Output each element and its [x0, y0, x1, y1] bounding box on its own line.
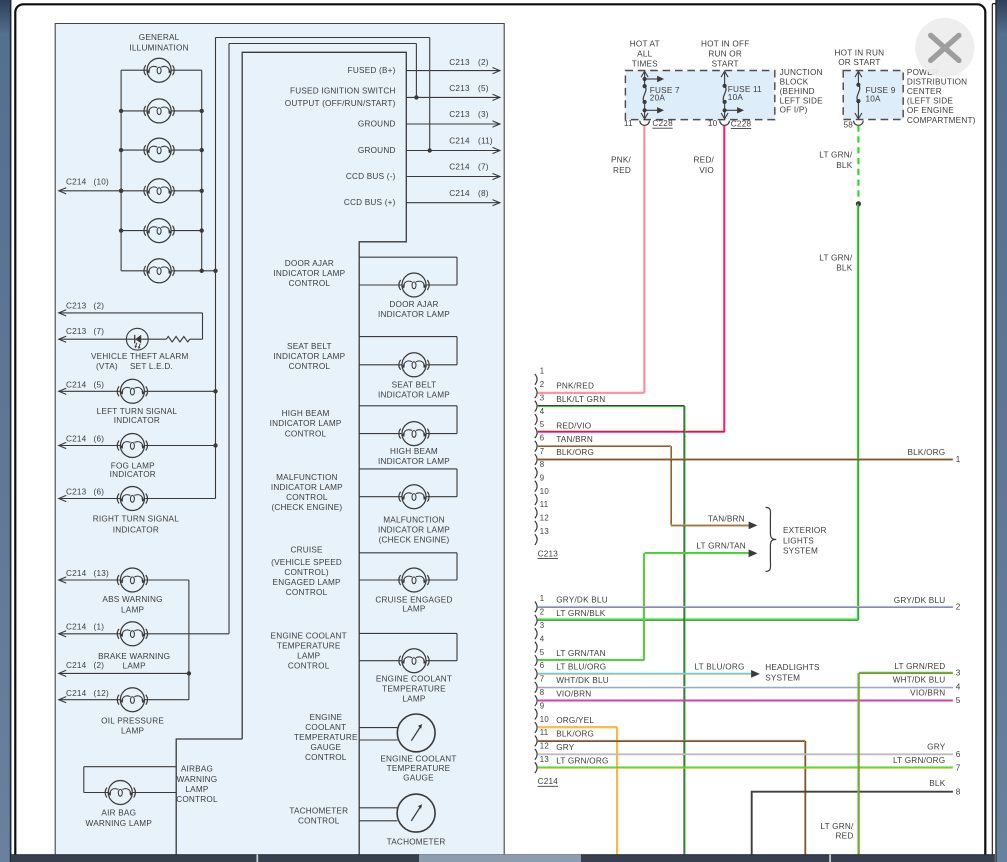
svg-text:CONTROL: CONTROL — [298, 817, 340, 826]
svg-text:MALFUNCTION: MALFUNCTION — [383, 515, 445, 524]
lamp HIGH BEAM — [399, 422, 429, 446]
general illumination left bus — [120, 70, 122, 271]
svg-text:LAMP: LAMP — [402, 694, 425, 703]
C214 pin 6 — [535, 669, 537, 680]
illumination lamp 6 row wire — [121, 270, 147, 272]
svg-text:2: 2 — [956, 603, 961, 612]
svg-text:HOT AT: HOT AT — [630, 40, 660, 49]
svg-text:HOT IN OFF: HOT IN OFF — [701, 40, 749, 49]
svg-text:EXTERIOR: EXTERIOR — [783, 526, 827, 535]
svg-text:TACHOMETER: TACHOMETER — [387, 837, 446, 846]
svg-text:4: 4 — [540, 634, 545, 643]
FOG LAMP wire C214(6) — [59, 445, 121, 447]
svg-text:DOOR AJAR: DOOR AJAR — [389, 300, 438, 309]
svg-text:(VEHICLE SPEED: (VEHICLE SPEED — [271, 558, 342, 567]
right scrollbar sliver — [992, 4, 996, 862]
svg-text:WARNING LAMP: WARNING LAMP — [86, 819, 153, 828]
air bag warning lamp — [105, 781, 135, 805]
output wire C213 (2) — [406, 70, 500, 72]
output wire C214 (7) — [406, 176, 500, 178]
svg-text:BLK/ORG: BLK/ORG — [556, 730, 594, 739]
svg-text:GENERAL: GENERAL — [139, 33, 180, 42]
svg-text:GRY: GRY — [927, 742, 946, 751]
lamp SEAT BELT — [399, 353, 429, 377]
svg-text:SYSTEM: SYSTEM — [783, 546, 818, 555]
svg-text:INDICATOR LAMP: INDICATOR LAMP — [273, 352, 345, 361]
lamp box HIGH BEAM — [359, 405, 457, 407]
svg-text:GROUND: GROUND — [358, 120, 396, 129]
svg-text:C214: C214 — [66, 623, 87, 632]
ABS WARNING wire C214(13) — [59, 579, 121, 581]
C214 pin 1 — [535, 602, 537, 613]
svg-text:(2): (2) — [478, 58, 489, 67]
svg-text:1: 1 — [956, 455, 961, 464]
power distribution center dashed box — [843, 71, 903, 120]
svg-text:TACHOMETER: TACHOMETER — [289, 806, 348, 815]
bottom scrollbar track — [11, 855, 995, 862]
lamp RIGHT TURN SIGNAL — [117, 487, 147, 511]
svg-text:LEFT TURN SIGNAL: LEFT TURN SIGNAL — [97, 407, 178, 416]
svg-text:CONTROL: CONTROL — [289, 279, 331, 288]
svg-text:INDICATOR: INDICATOR — [113, 525, 159, 534]
airbag warning lamp loop — [84, 766, 176, 768]
svg-text:7: 7 — [540, 447, 545, 456]
wire GRY/DK BLU — [538, 605, 953, 607]
lamp ABS WARNING — [117, 568, 147, 592]
svg-text:SEAT BELT: SEAT BELT — [287, 342, 332, 351]
C213 pin 7 — [535, 454, 537, 465]
svg-text:SEAT BELT: SEAT BELT — [392, 380, 437, 389]
svg-text:10A: 10A — [866, 95, 882, 104]
svg-text:(1): (1) — [94, 623, 105, 632]
svg-text:(11): (11) — [478, 136, 493, 145]
svg-text:12: 12 — [540, 514, 549, 523]
junction dot left bus — [119, 228, 123, 232]
svg-text:ENGINE COOLANT: ENGINE COOLANT — [271, 632, 347, 641]
svg-text:LAMP: LAMP — [123, 662, 146, 671]
fuse 9 — [857, 71, 859, 85]
output wire C213 (3) — [406, 123, 500, 125]
tachometer — [359, 807, 397, 809]
svg-text:CONTROL: CONTROL — [286, 588, 328, 597]
svg-text:FUSE 9: FUSE 9 — [866, 86, 896, 95]
svg-text:(5): (5) — [478, 84, 489, 93]
svg-text:LT GRN/TAN: LT GRN/TAN — [556, 649, 606, 658]
illumination lamp 4 — [144, 179, 174, 203]
svg-text:CONTROL: CONTROL — [305, 753, 347, 762]
svg-text:8: 8 — [956, 787, 961, 796]
illumination lamp 5 — [144, 219, 174, 243]
svg-text:C214: C214 — [449, 189, 470, 198]
C213 pin 8 — [535, 467, 537, 478]
svg-text:4: 4 — [956, 683, 961, 692]
svg-text:(8): (8) — [478, 189, 489, 198]
svg-text:(7): (7) — [478, 163, 489, 172]
output wire C214 (8) — [406, 202, 500, 204]
lamp FOG LAMP — [117, 434, 147, 458]
svg-text:DOOR AJAR: DOOR AJAR — [285, 259, 334, 268]
svg-text:C214: C214 — [449, 136, 470, 145]
svg-text:(2): (2) — [94, 661, 105, 670]
svg-text:JUNCTION: JUNCTION — [780, 68, 823, 77]
illumination lamp 6 — [144, 259, 174, 283]
svg-text:INDICATOR LAMP: INDICATOR LAMP — [378, 525, 450, 534]
C214 pin 7 — [535, 682, 537, 693]
svg-text:C213: C213 — [66, 301, 87, 310]
svg-text:OF I/P): OF I/P) — [780, 106, 808, 115]
C214 pin 3 — [535, 628, 537, 639]
svg-text:20A: 20A — [650, 94, 666, 103]
illumination lamp 2 row wire — [121, 110, 147, 112]
svg-text:3: 3 — [540, 621, 545, 630]
lamp CRUISE ENGAGED — [399, 568, 429, 592]
C213 pin 6 — [535, 441, 537, 452]
lamp LEFT TURN SIGNAL — [117, 379, 147, 403]
svg-text:RIGHT TURN SIGNAL: RIGHT TURN SIGNAL — [93, 514, 179, 523]
svg-text:ILLUMINATION: ILLUMINATION — [129, 43, 188, 52]
svg-text:8: 8 — [540, 460, 545, 469]
svg-text:10A: 10A — [728, 93, 744, 102]
svg-text:(LEFT SIDE: (LEFT SIDE — [907, 97, 953, 106]
C214 pin 11 — [535, 736, 537, 747]
svg-text:CENTER: CENTER — [907, 87, 942, 96]
fuse 7 — [644, 71, 646, 86]
wire BLK/ORG C214-11 — [538, 739, 805, 741]
svg-text:CONTROL: CONTROL — [176, 795, 218, 804]
svg-text:BLK: BLK — [929, 779, 945, 788]
illumination lamp 1 row wire — [121, 69, 147, 71]
svg-text:ENGINE: ENGINE — [309, 713, 342, 722]
ignition rail (rail2) — [228, 44, 230, 634]
C213 pin 12 — [535, 521, 537, 532]
C213 pin 5 — [535, 427, 537, 438]
svg-text:HIGH BEAM: HIGH BEAM — [282, 409, 330, 418]
junction block dashed box — [625, 71, 774, 120]
svg-text:BLK/ORG: BLK/ORG — [556, 448, 594, 457]
svg-text:LEFT SIDE: LEFT SIDE — [780, 96, 824, 105]
svg-text:AIR BAG: AIR BAG — [101, 808, 136, 817]
C214 pin 5 — [535, 655, 537, 666]
C213 pin 4 — [535, 414, 537, 425]
C214 pin 10 — [535, 722, 537, 733]
svg-text:LAMP: LAMP — [402, 605, 425, 614]
svg-text:(CHECK ENGINE): (CHECK ENGINE) — [379, 536, 450, 545]
svg-text:TIMES: TIMES — [632, 60, 658, 69]
cluster control box outline — [242, 52, 406, 855]
svg-text:C214: C214 — [66, 569, 87, 578]
svg-text:ENGINE COOLANT: ENGINE COOLANT — [380, 755, 456, 764]
svg-text:VIO/BRN: VIO/BRN — [910, 689, 945, 698]
lamp box MALFUNCTION — [359, 468, 457, 470]
svg-text:C214: C214 — [66, 689, 87, 698]
engine coolant temperature gauge — [359, 727, 397, 729]
junction dot LT GRN/BLK — [856, 201, 861, 206]
svg-text:VIO: VIO — [699, 166, 714, 175]
svg-text:CRUISE ENGAGED: CRUISE ENGAGED — [375, 596, 452, 605]
svg-text:C214: C214 — [449, 163, 470, 172]
svg-text:HIGH BEAM: HIGH BEAM — [390, 447, 438, 456]
illumination lamp 3 row wire — [121, 149, 147, 151]
C214 pin 12 — [535, 749, 537, 760]
svg-text:INDICATOR LAMP: INDICATOR LAMP — [378, 457, 450, 466]
svg-text:6: 6 — [540, 433, 545, 442]
svg-text:C213: C213 — [449, 58, 470, 67]
svg-text:LT GRN/TAN: LT GRN/TAN — [696, 541, 746, 550]
svg-text:GRY: GRY — [556, 743, 575, 752]
svg-text:TEMPERATURE: TEMPERATURE — [387, 764, 451, 773]
svg-text:LT GRN/: LT GRN/ — [819, 253, 853, 262]
svg-text:(3): (3) — [478, 110, 489, 119]
svg-text:C213: C213 — [538, 549, 559, 558]
svg-text:WARNING: WARNING — [177, 775, 218, 784]
C213 pin 9 — [535, 481, 537, 492]
svg-text:RED/: RED/ — [694, 156, 715, 165]
wire BLK/LT GRN — [538, 405, 685, 407]
svg-text:VIO/BRN: VIO/BRN — [556, 689, 591, 698]
exterior lights brace — [766, 507, 777, 571]
VTA set LED — [126, 328, 148, 350]
close button — [915, 18, 974, 77]
C213 (2) wire — [59, 312, 203, 314]
wire BLK/ORG C213-7 — [538, 458, 953, 460]
window edge band left — [0, 0, 11, 862]
svg-text:GRY/DK BLU: GRY/DK BLU — [556, 596, 608, 605]
C214 pin 13 — [535, 762, 537, 773]
svg-text:INDICATOR LAMP: INDICATOR LAMP — [378, 310, 450, 319]
svg-text:1: 1 — [540, 594, 545, 603]
lamp box DOOR AJAR — [359, 256, 457, 258]
C213 (7) wire — [59, 338, 148, 340]
svg-text:HEADLIGHTS: HEADLIGHTS — [765, 663, 820, 672]
wire ORG/YEL — [538, 726, 618, 728]
svg-text:10: 10 — [540, 487, 550, 496]
output wire C214 (11) — [406, 150, 500, 152]
C214 pin 4 — [535, 642, 537, 653]
svg-text:(VTA): (VTA) — [96, 362, 118, 371]
svg-text:6: 6 — [956, 750, 961, 759]
svg-text:TEMPERATURE: TEMPERATURE — [277, 642, 341, 651]
svg-text:BRAKE WARNING: BRAKE WARNING — [98, 652, 170, 661]
svg-text:TAN/BRN: TAN/BRN — [556, 435, 593, 444]
svg-text:10: 10 — [540, 715, 550, 724]
C214 (10) wire — [59, 190, 121, 192]
svg-text:INDICATOR LAMP: INDICATOR LAMP — [271, 483, 343, 492]
lamp BRAKE WARNING — [117, 622, 147, 646]
svg-text:RED: RED — [613, 166, 631, 175]
svg-text:1: 1 — [540, 367, 545, 376]
RIGHT TURN SIGNAL wire C213(6) — [59, 498, 121, 500]
svg-text:7: 7 — [956, 763, 961, 772]
svg-text:ENGINE COOLANT: ENGINE COOLANT — [376, 675, 452, 684]
wire LT GRN/RED — [857, 673, 859, 855]
svg-text:FUSED (B+): FUSED (B+) — [348, 66, 396, 75]
svg-text:LAMP: LAMP — [121, 727, 144, 736]
svg-text:(12): (12) — [94, 689, 109, 698]
output wire C213 (5) — [406, 96, 500, 98]
svg-text:(13): (13) — [94, 569, 109, 578]
svg-text:C228: C228 — [652, 119, 673, 128]
junction dot right bus — [200, 148, 204, 152]
svg-text:BLK/ORG: BLK/ORG — [907, 448, 945, 457]
C213 pin 13 — [535, 534, 537, 545]
svg-text:OUTPUT (OFF/RUN/START): OUTPUT (OFF/RUN/START) — [285, 99, 396, 108]
svg-text:GAUGE: GAUGE — [310, 743, 341, 752]
svg-text:PNK/: PNK/ — [611, 156, 631, 165]
wire LT GRN/BLK solid — [857, 204, 859, 620]
svg-text:RED/VIO: RED/VIO — [556, 422, 591, 431]
LEFT TURN SIGNAL wire C214(5) — [59, 390, 121, 392]
svg-text:MALFUNCTION: MALFUNCTION — [276, 473, 338, 482]
warning lamp drop wire — [188, 580, 190, 700]
rail1 junction dot on ground wire — [428, 148, 432, 152]
svg-text:7: 7 — [540, 675, 545, 684]
svg-text:(5): (5) — [94, 381, 105, 390]
svg-text:10: 10 — [708, 119, 718, 128]
svg-text:CONTROL: CONTROL — [288, 662, 330, 671]
C214 pin 8 — [535, 695, 537, 706]
svg-text:LAMP: LAMP — [185, 785, 208, 794]
svg-text:5: 5 — [540, 420, 545, 429]
svg-text:C213: C213 — [449, 110, 470, 119]
wire LT BLU/ORG — [538, 672, 751, 674]
svg-text:CONTROL: CONTROL — [286, 493, 328, 502]
svg-text:3: 3 — [540, 393, 545, 402]
svg-text:LT GRN/: LT GRN/ — [819, 151, 853, 160]
svg-text:(BEHIND: (BEHIND — [780, 87, 815, 96]
svg-text:CRUISE: CRUISE — [290, 546, 323, 555]
svg-text:GRY/DK BLU: GRY/DK BLU — [894, 596, 946, 605]
junction dot left bus — [119, 148, 123, 152]
C214 pin 9 — [535, 709, 537, 720]
bottom scrollbar thumb — [419, 855, 581, 862]
C214 (2) wire — [59, 672, 189, 674]
svg-text:HOT IN RUN: HOT IN RUN — [834, 48, 884, 57]
illumination lamp 1 — [144, 58, 174, 82]
svg-text:COMPARTMENT): COMPARTMENT) — [907, 116, 976, 125]
svg-text:INDICATOR LAMP: INDICATOR LAMP — [273, 269, 345, 278]
ground rail (rail1) — [215, 38, 217, 499]
svg-text:C213: C213 — [66, 488, 87, 497]
svg-text:GAUGE: GAUGE — [403, 773, 434, 782]
svg-text:LAMP: LAMP — [297, 652, 320, 661]
svg-text:4: 4 — [540, 407, 545, 416]
svg-text:C214: C214 — [66, 434, 87, 443]
svg-text:TAN/BRN: TAN/BRN — [708, 515, 745, 524]
svg-text:CONTROL): CONTROL) — [284, 568, 329, 577]
svg-text:INDICATOR LAMP: INDICATOR LAMP — [270, 419, 342, 428]
svg-text:C214: C214 — [66, 381, 87, 390]
svg-text:BLOCK: BLOCK — [780, 78, 809, 87]
C214 pin 2 — [535, 615, 537, 626]
svg-text:11: 11 — [624, 119, 633, 128]
svg-text:FUSED IGNITION SWITCH: FUSED IGNITION SWITCH — [290, 87, 396, 96]
svg-text:CCD BUS (+): CCD BUS (+) — [344, 198, 396, 207]
svg-text:COOLANT: COOLANT — [305, 723, 346, 732]
svg-text:12: 12 — [540, 742, 549, 751]
svg-text:START: START — [712, 60, 739, 69]
svg-text:58: 58 — [843, 121, 853, 130]
junction dot — [213, 269, 217, 273]
lamp box SEAT BELT — [359, 336, 457, 338]
svg-text:C213: C213 — [66, 327, 87, 336]
wire TAN/BRN — [538, 445, 671, 447]
svg-text:SYSTEM: SYSTEM — [765, 673, 800, 682]
svg-text:C214: C214 — [538, 777, 559, 786]
svg-text:INDICATOR: INDICATOR — [110, 470, 156, 479]
wire LT GRN/BLK fuse feed (dashed) — [857, 126, 859, 204]
svg-text:INDICATOR: INDICATOR — [114, 416, 160, 425]
svg-text:11: 11 — [540, 728, 549, 737]
svg-text:AIRBAG: AIRBAG — [181, 765, 213, 774]
svg-text:3: 3 — [956, 668, 961, 677]
svg-text:LAMP: LAMP — [121, 605, 144, 614]
svg-text:(CHECK ENGINE): (CHECK ENGINE) — [271, 503, 342, 512]
svg-text:ALL: ALL — [637, 50, 652, 59]
svg-text:CONTROL: CONTROL — [285, 429, 327, 438]
svg-text:LT GRN/ORG: LT GRN/ORG — [556, 756, 608, 765]
C213 pin 3 — [535, 401, 537, 412]
svg-text:SET L.E.D.: SET L.E.D. — [130, 362, 173, 371]
lamp MALFUNCTION — [399, 485, 429, 509]
BRAKE WARNING wire C214(1) — [59, 633, 121, 635]
wire VIO/BRN — [538, 699, 953, 701]
svg-text:FOG LAMP: FOG LAMP — [111, 461, 155, 470]
svg-text:8: 8 — [540, 688, 545, 697]
svg-text:(6): (6) — [94, 434, 105, 443]
svg-text:OF ENGINE: OF ENGINE — [907, 106, 954, 115]
svg-text:OR START: OR START — [838, 58, 880, 67]
svg-text:GROUND: GROUND — [358, 146, 396, 155]
fuse 11 — [724, 71, 726, 86]
wire BLK — [752, 792, 953, 856]
svg-text:RED: RED — [836, 832, 854, 841]
svg-text:ABS WARNING: ABS WARNING — [102, 595, 162, 604]
svg-text:LT GRN/ORG: LT GRN/ORG — [893, 756, 945, 765]
svg-text:(10): (10) — [94, 178, 109, 187]
svg-text:LT GRN/: LT GRN/ — [820, 822, 854, 831]
svg-text:13: 13 — [540, 755, 549, 764]
scrollbar separator slits — [256, 855, 258, 862]
svg-text:WHT/DK BLU: WHT/DK BLU — [893, 675, 946, 684]
junction dot right bus — [200, 109, 204, 113]
svg-text:C213: C213 — [449, 84, 470, 93]
svg-text:BLK: BLK — [836, 263, 852, 272]
svg-text:C214: C214 — [66, 661, 87, 670]
svg-text:WHT/DK BLU: WHT/DK BLU — [556, 676, 609, 685]
lamp DOOR AJAR — [399, 273, 429, 297]
svg-text:13: 13 — [540, 527, 549, 536]
svg-text:(7): (7) — [94, 327, 105, 336]
svg-text:C214: C214 — [66, 178, 87, 187]
svg-text:LT GRN/RED: LT GRN/RED — [894, 662, 945, 671]
svg-text:TEMPERATURE: TEMPERATURE — [382, 684, 446, 693]
wire LT GRN/TAN — [538, 659, 645, 661]
rail2 junction dot on fused ign wire — [414, 95, 418, 99]
svg-text:LT BLU/ORG: LT BLU/ORG — [556, 663, 606, 672]
svg-text:LT GRN/BLK: LT GRN/BLK — [556, 609, 606, 618]
svg-text:INDICATOR LAMP: INDICATOR LAMP — [378, 390, 450, 399]
svg-text:5: 5 — [540, 648, 545, 657]
svg-text:11: 11 — [540, 500, 549, 509]
svg-text:PNK/RED: PNK/RED — [556, 381, 594, 390]
svg-text:CONTROL: CONTROL — [289, 362, 331, 371]
wire WHT/DK BLU — [538, 686, 953, 688]
C213 pin 10 — [535, 494, 537, 505]
junction dot — [200, 269, 204, 273]
junction dot right bus — [200, 189, 204, 193]
lamp box CRUISE ENGAGED — [359, 552, 457, 554]
wire RED/VIO — [723, 126, 725, 433]
